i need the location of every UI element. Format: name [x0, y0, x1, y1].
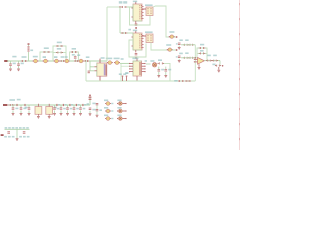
ground (op-amp) — [198, 64, 201, 69]
wire trap2 loop — [53, 46, 66, 61]
capacitor C34 (series) — [63, 104, 67, 106]
resistor R13 — [185, 80, 191, 82]
wire T2-Y2 pin — [142, 35, 146, 37]
wire trap3 loop — [70, 52, 79, 61]
ground (AF out) — [217, 67, 220, 72]
wire op-amp out — [204, 60, 220, 62]
wire TP1 down — [119, 7, 121, 33]
wire row2 — [181, 57, 197, 59]
capacitor C8 (under T1) — [135, 24, 138, 29]
inductor L12 — [104, 115, 113, 121]
capacitor C40 (series) — [84, 56, 90, 62]
capacitor C6 (trap3 top) — [71, 48, 77, 53]
resistor R11 — [158, 59, 165, 64]
capacitor C19 — [9, 99, 16, 106]
wire T1-Y1 pin — [142, 8, 146, 10]
label Y4 — [54, 107, 57, 109]
capacitor C17 (U1 decoupling) — [119, 73, 124, 81]
capacitor C2 — [17, 61, 24, 71]
inductor L5 — [54, 56, 60, 63]
wire bottom chain — [8, 104, 90, 106]
capacitor C28 — [89, 108, 96, 116]
capacitor C24 — [60, 105, 66, 116]
capacitor C11 (osc2 coupling) — [166, 44, 177, 51]
resistor R5 — [183, 52, 189, 58]
wire osc1 out — [153, 6, 169, 37]
capacitor C36 (series) — [76, 104, 80, 106]
wire FL1 input loop — [90, 61, 95, 71]
wire U1 out — [145, 60, 151, 64]
diode D1 — [117, 100, 127, 106]
capacitor C14 (feedback) — [199, 50, 206, 54]
inductor L8 — [106, 58, 113, 65]
port RF_IN — [4, 60, 9, 62]
transformer T1 — [131, 1, 143, 24]
wire branch down to IF bus — [85, 61, 87, 81]
wire osc2 out — [151, 43, 167, 51]
port IF_IN — [3, 104, 8, 106]
wire osc2 loop — [129, 40, 146, 57]
resistor R9 — [212, 55, 218, 62]
transformer T2 — [131, 30, 143, 53]
inductor L4 (trap2 mid) — [56, 48, 63, 54]
capacitor C32 (series) — [74, 60, 79, 62]
mixer X1 — [150, 60, 156, 67]
inductor L7 — [77, 54, 84, 62]
inductor L6 — [64, 59, 70, 63]
capacitor C5 (trap2 top) — [56, 42, 63, 47]
crystal filter FL1 — [95, 57, 107, 81]
inductor L1 (choke to bias) — [28, 43, 34, 61]
resistor R10 (AF out) — [212, 64, 223, 67]
label J2 — [1, 134, 4, 136]
wire feedback loop — [197, 48, 207, 60]
capacitor C10 (under T2) — [135, 53, 138, 59]
crystal Y4 — [46, 104, 53, 119]
inductor L9 — [114, 58, 120, 65]
capacitor C18 (U1 decoupling) — [123, 73, 127, 81]
wire chain end up — [89, 97, 91, 106]
testpoint TP1 — [119, 1, 127, 8]
capacitor C12 — [176, 39, 183, 49]
capacitor C7 (trap3 shunt) — [72, 54, 77, 61]
capacitor C41 (FL1 bias) — [88, 71, 90, 74]
ground (connector) — [16, 138, 19, 141]
capacitor C29 — [7, 131, 10, 133]
wire main chain — [7, 60, 107, 62]
inductor L3 — [43, 56, 49, 63]
capacitor C42 (divider) — [87, 103, 102, 117]
capacitor C13 — [176, 53, 183, 63]
wire osc2 in — [120, 32, 133, 34]
capacitor C1 — [9, 61, 16, 71]
wire VFO feed top — [107, 6, 120, 8]
capacitor C26 — [73, 105, 79, 116]
capacitor C31 (series) — [59, 56, 65, 62]
resistor R7 (feedback) — [199, 44, 206, 49]
label net — [17, 99, 21, 101]
capacitor C33 (series) — [56, 104, 60, 106]
op-amp U2 — [194, 57, 205, 64]
capacitor C30 — [23, 131, 26, 133]
wire trap2 mid branch — [53, 52, 66, 54]
crystal Y1 block — [145, 4, 153, 15]
label L6 — [64, 56, 67, 58]
sheet border (right edge) — [239, 0, 240, 150]
resistor R3 — [183, 39, 189, 45]
capacitor C38 (series) — [16, 104, 17, 106]
capacitor C37 (series) — [82, 104, 86, 106]
crystal Y3 — [35, 104, 42, 119]
wire R1 to T1 — [127, 6, 133, 8]
capacitor C35 (series) — [69, 104, 73, 106]
capacitor C22 — [25, 105, 31, 116]
wire IF bus — [86, 80, 195, 82]
wire row1 — [181, 44, 195, 46]
inductor L2 — [33, 56, 39, 63]
diode D2 — [117, 107, 127, 113]
IC U1 — [129, 58, 146, 81]
resistor R8 — [206, 55, 212, 62]
wire feedback branch2 — [197, 52, 207, 54]
wire mixer out — [164, 63, 170, 81]
capacitor C27 — [79, 105, 85, 116]
capacitor C3 — [21, 56, 27, 62]
label C1 — [12, 56, 16, 58]
wire connector — [5, 129, 30, 138]
wire VFO feed vertical — [106, 7, 108, 61]
capacitor C25 — [66, 105, 72, 116]
wire to mixer in — [120, 62, 130, 64]
wire osc1 loop — [130, 7, 151, 25]
inductor L11 — [104, 107, 113, 113]
wire sum node vertical — [195, 45, 196, 81]
capacitor C23 — [53, 105, 59, 116]
label U1 pins — [125, 72, 128, 74]
wire trap1 loop — [40, 52, 53, 61]
capacitor C15 — [157, 67, 164, 78]
crystal Y2 block — [145, 31, 153, 42]
resistor R14 — [89, 95, 96, 105]
capacitor C20 — [12, 105, 19, 116]
resistor R12 — [174, 80, 184, 82]
connector J2 pin labels — [4, 136, 29, 138]
capacitor C4 (trap1 top) — [43, 47, 50, 53]
capacitor C21 — [20, 105, 27, 116]
resistor R1 — [121, 6, 127, 8]
capacitor C9 (osc1 coupling) — [169, 31, 178, 38]
connector J2 labels — [5, 127, 29, 129]
resistor R6 — [188, 57, 194, 59]
wire U1 pin2 — [121, 58, 130, 81]
capacitor C16 — [164, 67, 171, 78]
wire out corner — [219, 61, 221, 65]
inductor L10 — [104, 100, 113, 106]
capacitor C39 (series) — [24, 104, 25, 106]
resistor R4 — [188, 44, 194, 46]
diode D3 — [117, 115, 127, 121]
resistor R2 — [121, 29, 131, 34]
